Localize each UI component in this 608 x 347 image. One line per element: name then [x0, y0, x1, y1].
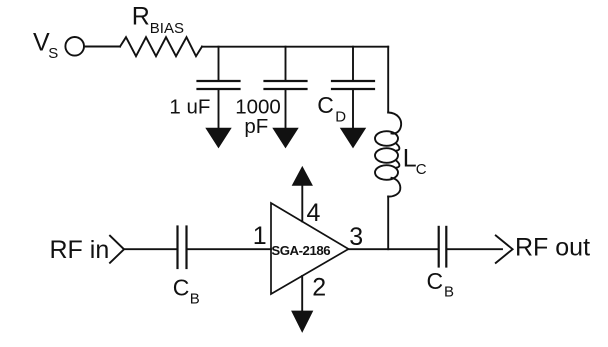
inductor LC	[375, 113, 401, 197]
label VS	[33, 29, 58, 63]
svg-text:1 uF: 1 uF	[169, 96, 210, 119]
wire C3 stem lower	[352, 90, 354, 134]
capacitor CD	[332, 81, 374, 89]
resistor RBIAS	[120, 37, 202, 56]
svg-text:C: C	[416, 161, 427, 178]
capacitor CB output	[439, 227, 447, 267]
wire C2 stem upper	[285, 47, 287, 80]
svg-text:RF out: RF out	[515, 234, 590, 262]
label 1000 pF	[235, 96, 281, 138]
capacitor C2 1000pF	[265, 81, 307, 89]
svg-text:S: S	[48, 45, 58, 62]
capacitor CB input	[178, 227, 187, 269]
svg-text:RF in: RF in	[50, 236, 110, 264]
wire LC to output node	[387, 197, 389, 250]
wire VS circle to resistor	[85, 46, 121, 48]
svg-text:BIAS: BIAS	[150, 20, 184, 37]
op-amp U1 SGA-2186 triangle	[271, 203, 349, 294]
svg-text:pF: pF	[244, 115, 268, 138]
svg-text:C: C	[317, 92, 334, 118]
svg-text:R: R	[132, 2, 150, 30]
svg-text:3: 3	[349, 223, 363, 251]
label RBIAS	[132, 2, 184, 36]
wire C1 stem upper	[218, 47, 220, 80]
capacitor C1 1uF	[198, 81, 240, 89]
label CB input	[173, 275, 200, 308]
wire C1 stem lower	[218, 90, 220, 134]
svg-text:1: 1	[253, 222, 267, 250]
label LC	[403, 145, 427, 179]
svg-text:B: B	[444, 283, 454, 300]
svg-text:SGA-2186: SGA-2186	[271, 243, 330, 258]
wire right rail down	[387, 47, 389, 113]
wire RF in to CB	[125, 248, 177, 250]
wire pin3 to output cap	[349, 248, 439, 250]
svg-text:4: 4	[307, 199, 321, 227]
label CD	[317, 92, 346, 125]
wire C2 stem lower	[285, 90, 287, 134]
ground arrow under C1	[206, 128, 231, 147]
port RF out chevron	[496, 236, 513, 263]
ground arrow under C2	[273, 128, 298, 147]
wire C3 stem upper	[352, 47, 354, 80]
svg-text:2: 2	[312, 274, 326, 302]
svg-text:C: C	[173, 275, 190, 301]
label CB output	[427, 268, 455, 300]
svg-text:C: C	[427, 268, 444, 294]
ground arrow under CD	[341, 128, 366, 147]
wire pin4 stem	[301, 185, 303, 222]
port RF in chevron	[110, 236, 124, 263]
wire top rail	[202, 46, 388, 48]
ground arrow pin2	[292, 311, 313, 332]
node VS terminal circle	[65, 37, 84, 56]
wire output cap to RF out	[447, 248, 502, 250]
svg-text:L: L	[403, 145, 417, 173]
svg-text:B: B	[190, 291, 200, 308]
svg-text:D: D	[335, 108, 346, 125]
wire CB to amp pin 1	[188, 248, 272, 250]
wire pin2 stem	[301, 276, 303, 312]
arrow V+ pin4	[293, 167, 313, 185]
